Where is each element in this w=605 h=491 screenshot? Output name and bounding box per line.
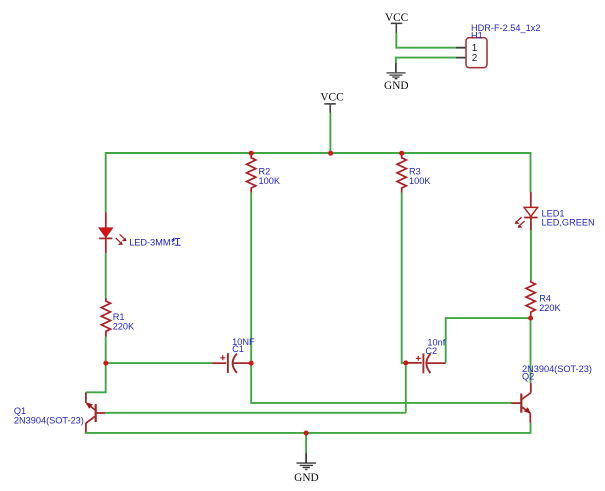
capacitor C1 10NF <box>212 337 255 373</box>
wire VCC to H1 pin 1 <box>396 33 456 48</box>
svg-text:C1: C1 <box>232 344 244 354</box>
LED LED1 LED,GREEN <box>515 192 595 231</box>
ground GND (top right) <box>384 63 408 92</box>
power symbol VCC (top right) <box>385 12 408 33</box>
svg-text:VCC: VCC <box>320 91 343 103</box>
svg-text:220K: 220K <box>113 322 135 332</box>
node R3 top junction <box>399 151 404 156</box>
node C1/R2 junction <box>249 361 254 366</box>
transistor Q1 2N3904(SOT-23) <box>14 392 105 432</box>
wire VCC stem <box>329 113 331 153</box>
wire R4 node to C2 right <box>446 318 531 363</box>
svg-text:C2: C2 <box>425 346 437 356</box>
node GND junction <box>304 431 309 436</box>
resistor R4 220K <box>526 280 561 318</box>
wire R3 down to C2 node <box>402 192 406 363</box>
wire GND stem <box>305 433 307 453</box>
ground GND (bottom) <box>294 453 318 484</box>
svg-text:2: 2 <box>472 53 478 64</box>
transistor Q2 2N3904(SOT-23) <box>511 364 592 423</box>
wire node down to Q1 collector <box>86 363 106 392</box>
node R1/C1 junction <box>103 361 108 366</box>
wire left rail upper <box>105 152 107 213</box>
svg-text:2N3904(SOT-23): 2N3904(SOT-23) <box>14 415 84 425</box>
wire Q1 base to C2 node <box>105 412 406 414</box>
connector H1 HDR-F-2.54_1x2 <box>456 23 540 67</box>
wire LED to R1 <box>105 253 107 299</box>
svg-text:GND: GND <box>384 80 408 92</box>
node R4 bottom junction <box>528 316 533 321</box>
wire GND to H1 pin 2 <box>396 58 456 64</box>
svg-text:100K: 100K <box>259 176 281 186</box>
capacitor C2 10nf <box>406 338 446 374</box>
wire C1 node down and to Q2 base <box>251 363 511 403</box>
svg-text:LED-3MM: LED-3MM <box>129 237 170 247</box>
wire top rail <box>106 152 531 154</box>
node C2/R3 junction <box>403 360 408 365</box>
svg-text:Q2: Q2 <box>522 371 534 381</box>
LED LED-3MM红 (red 3mm LED) <box>99 212 181 253</box>
svg-text:GND: GND <box>294 472 318 484</box>
wire C2 node down to Q1 base wire <box>405 363 407 413</box>
wire node to C1 <box>106 362 213 364</box>
svg-text:H1: H1 <box>471 30 483 40</box>
resistor R1 220K <box>101 298 135 337</box>
resistor R2 100K <box>247 153 281 192</box>
resistor R3 100K <box>397 153 431 192</box>
node R2 top junction <box>249 151 254 156</box>
wire R4 node down to Q2 collector <box>530 318 532 383</box>
wire LED1 to R4 <box>530 231 532 281</box>
power symbol VCC (top center) <box>320 91 343 113</box>
svg-text:R4: R4 <box>539 293 551 303</box>
wire R1 to node <box>105 337 107 364</box>
svg-text:100K: 100K <box>409 176 431 186</box>
svg-text:Q1: Q1 <box>14 406 26 416</box>
wire R2 down to C1 node <box>250 192 252 363</box>
wire bottom rail <box>86 423 531 433</box>
svg-text:VCC: VCC <box>385 12 408 24</box>
wire right rail upper <box>530 152 532 192</box>
svg-text:LED,GREEN: LED,GREEN <box>542 217 595 227</box>
node VCC rail junction <box>328 151 333 156</box>
svg-text:220K: 220K <box>539 303 561 313</box>
